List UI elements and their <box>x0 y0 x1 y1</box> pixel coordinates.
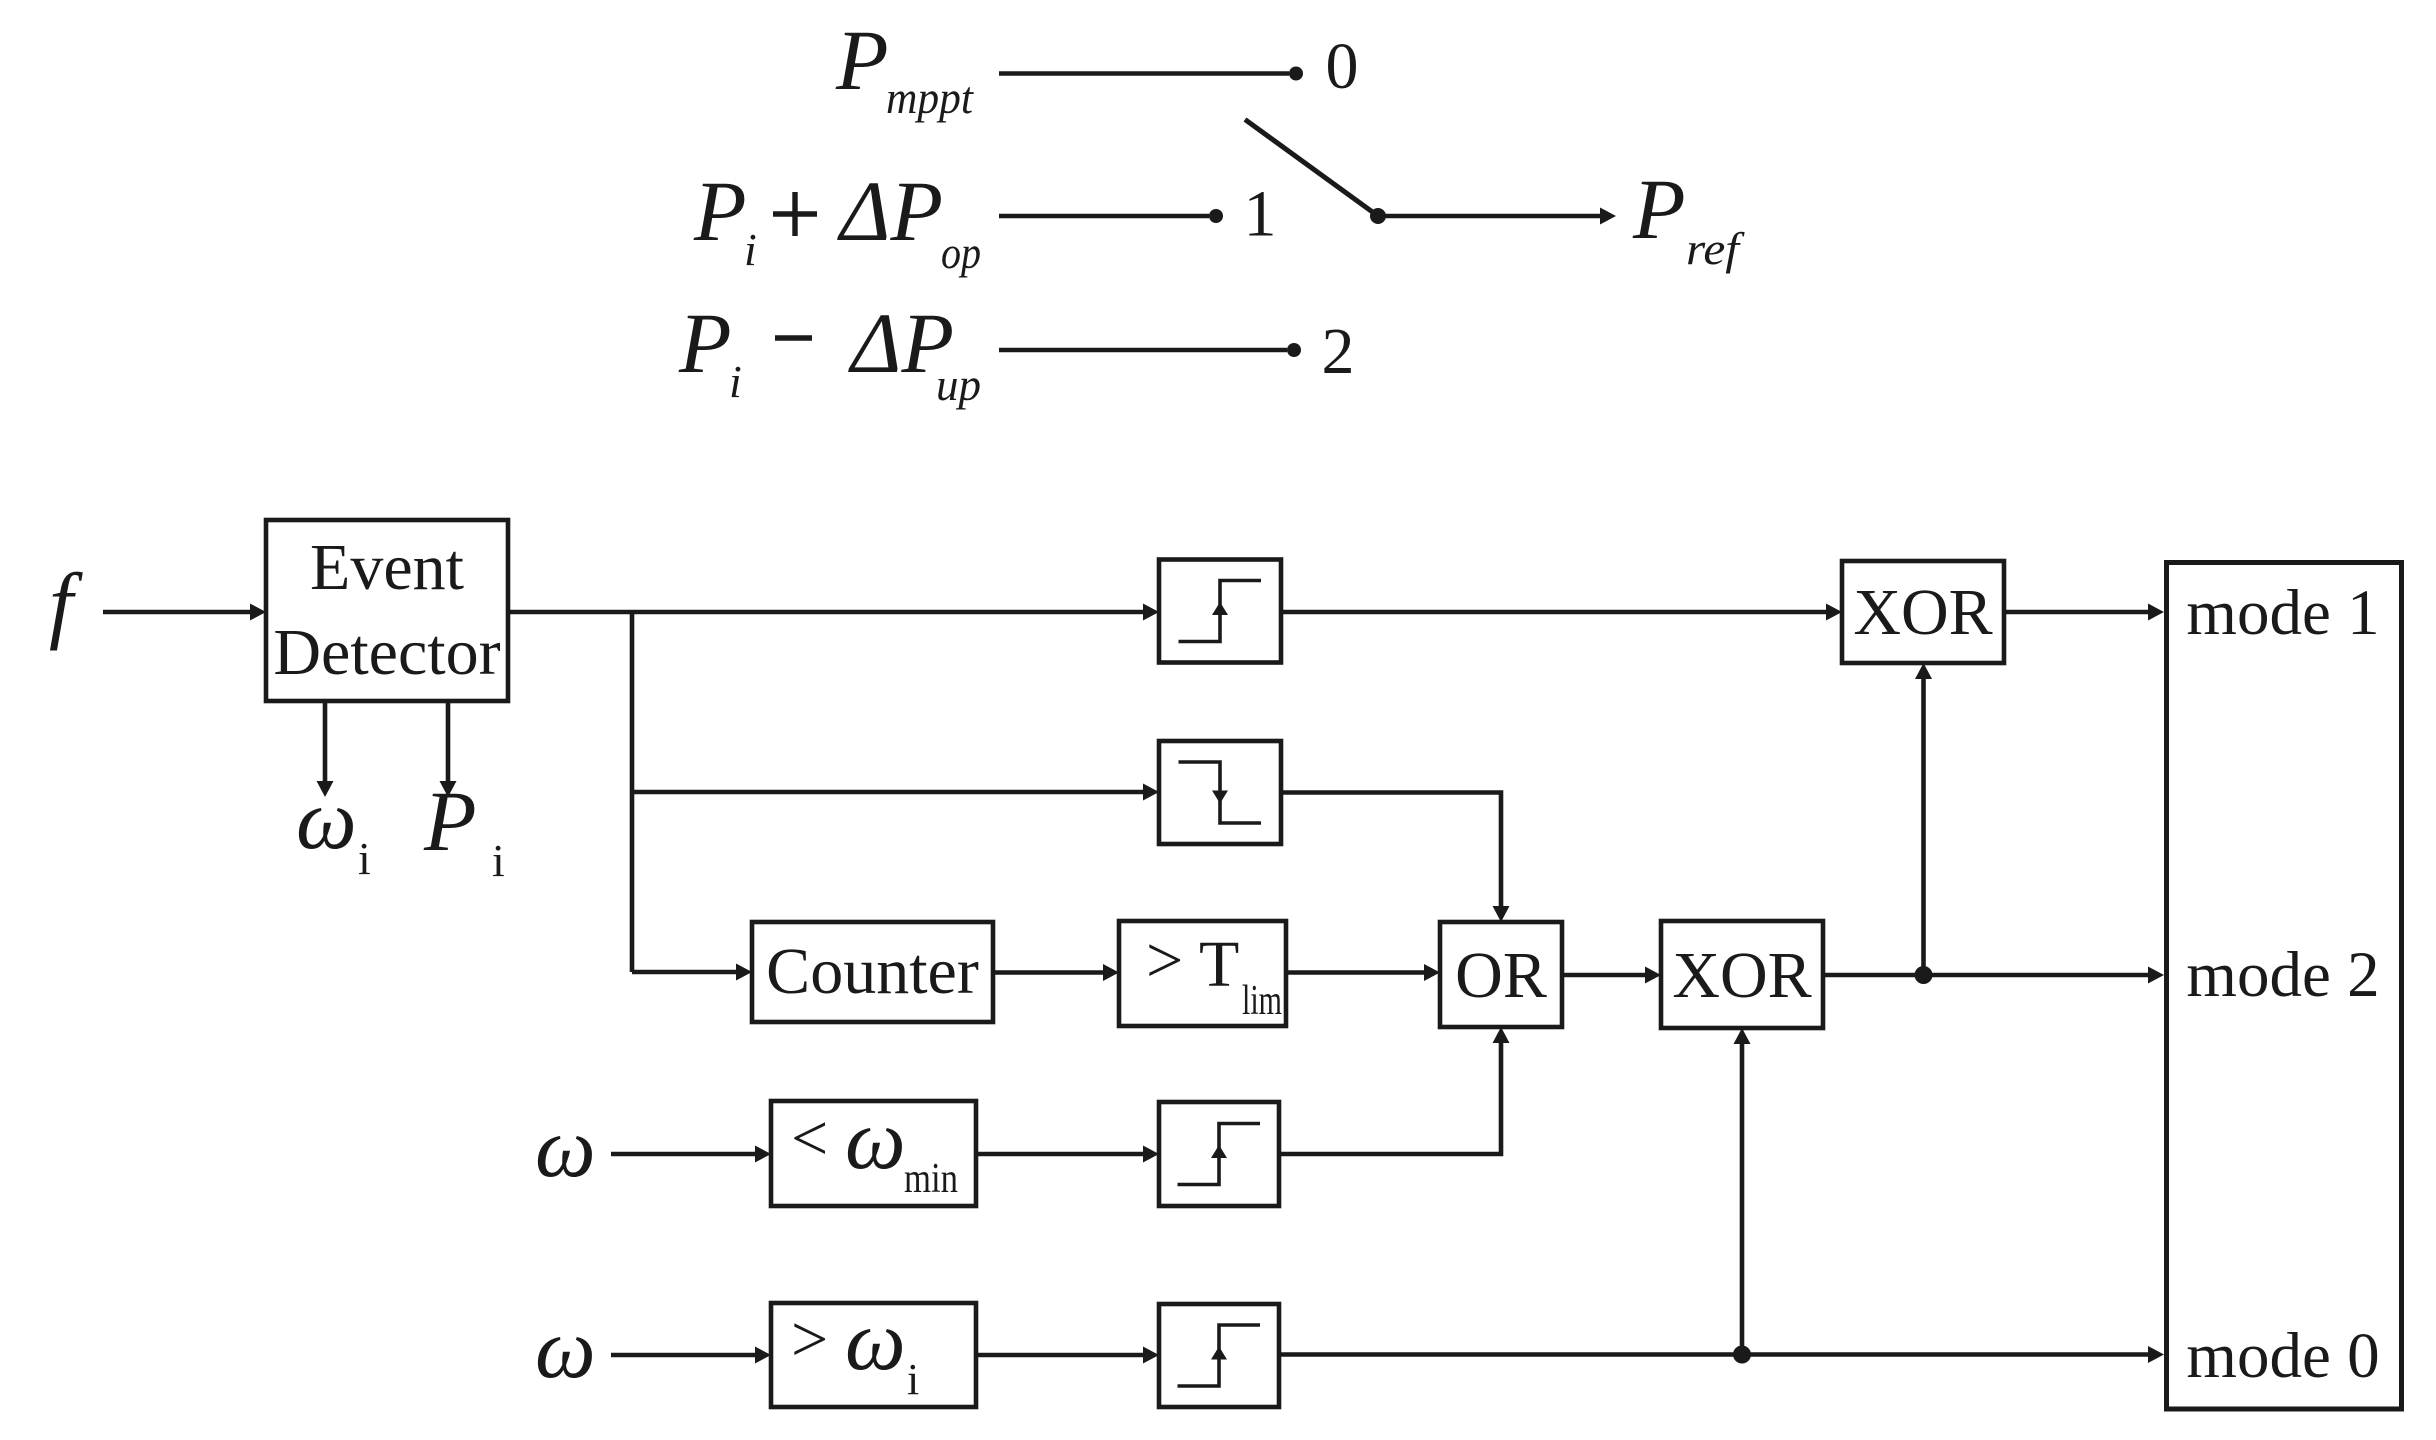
svg-text:>: > <box>1146 924 1183 997</box>
node P_i <box>423 773 505 886</box>
svg-text:i: i <box>744 224 757 275</box>
svg-text:P: P <box>1632 161 1686 257</box>
block falling-edge trigger <box>1159 741 1281 844</box>
wire rising edge 4 to mode 0 input <box>1279 1352 2150 1357</box>
svg-text:Event: Event <box>310 531 464 604</box>
svg-text:i: i <box>907 1355 919 1404</box>
switch pole dot <box>1370 208 1386 224</box>
wire Pi+dPop to contact 1 <box>999 214 1209 219</box>
wire P_i output (down) <box>446 701 451 783</box>
wire Counter to T_lim comparator <box>993 970 1105 975</box>
svg-text:ω: ω <box>535 1300 596 1396</box>
svg-text:OR: OR <box>1455 939 1547 1012</box>
contact 1 dot <box>1209 209 1223 223</box>
svg-text:2: 2 <box>1322 315 1355 388</box>
wire rising edge 1 to XOR1 <box>1281 610 1828 615</box>
label P_i + dP_op <box>693 163 981 278</box>
block XOR2 gate <box>1661 921 1823 1028</box>
svg-text:T: T <box>1199 928 1239 1001</box>
label P_ref <box>1632 161 1746 274</box>
block OR gate <box>1440 922 1562 1027</box>
label < omega_min <box>791 1091 958 1202</box>
svg-text:up: up <box>936 359 981 410</box>
wire omega_i output (down) <box>323 701 328 783</box>
block comparator > T_lim <box>1119 921 1286 1026</box>
svg-text:mode 2: mode 2 <box>2186 939 2379 1011</box>
wire junction up to XOR1 <box>1921 677 1926 975</box>
wire Pmppt to contact 0 <box>999 71 1289 76</box>
svg-text:Counter: Counter <box>766 935 979 1008</box>
svg-text:ω: ω <box>535 1099 596 1195</box>
block Event Detector <box>266 520 508 701</box>
svg-text:ref: ref <box>1686 223 1746 274</box>
contact 2 dot <box>1287 343 1301 357</box>
block Counter <box>752 922 993 1022</box>
svg-text:i: i <box>492 835 505 886</box>
wire branch vertical <box>630 612 635 972</box>
block rising-edge trigger 4 <box>1159 1304 1279 1407</box>
block mode selector output <box>2167 563 2402 1410</box>
svg-text:XOR: XOR <box>1672 939 1811 1012</box>
junction on mode-2 wire <box>1915 966 1933 984</box>
label > omega_i <box>791 1292 919 1404</box>
svg-text:ω: ω <box>845 1091 906 1187</box>
block comparator > omega_i <box>771 1303 976 1407</box>
wire Pi-dPup to contact 2 <box>999 348 1287 353</box>
svg-text:lim: lim <box>1242 978 1282 1024</box>
wire omega to > omega_i <box>611 1353 757 1358</box>
svg-text:ω: ω <box>845 1292 906 1388</box>
wire junction up to XOR2 <box>1740 1042 1745 1355</box>
contact 0 dot <box>1289 67 1303 81</box>
wire f to Event Detector <box>103 610 252 615</box>
svg-text:mode 1: mode 1 <box>2186 577 2379 649</box>
svg-text:op: op <box>941 227 981 278</box>
wire XOR2 to mode 2 input <box>1823 973 2150 978</box>
svg-text:i: i <box>358 833 371 884</box>
block XOR1 gate <box>1842 561 2004 663</box>
label > T_lim <box>1146 924 1282 1024</box>
wire branch to falling edge <box>632 790 1145 795</box>
wire OR to XOR2 <box>1562 973 1647 978</box>
switch arm (pole to contact 0 side) <box>1245 120 1378 217</box>
wire falling edge to OR (top) <box>1281 793 1501 909</box>
wire omega_i to rising edge 4 <box>976 1353 1145 1358</box>
svg-text:f: f <box>49 555 83 651</box>
svg-text:P: P <box>835 12 889 108</box>
wire T_lim to OR <box>1286 970 1426 975</box>
svg-text:1: 1 <box>1244 178 1277 251</box>
svg-text:<: < <box>791 1102 828 1175</box>
wire omega to < omega_min <box>611 1152 757 1157</box>
label P_mppt <box>835 12 974 123</box>
svg-text:i: i <box>729 356 742 407</box>
label Event Detector <box>273 531 500 689</box>
svg-text:>: > <box>791 1303 828 1376</box>
wire branch to Counter <box>632 970 738 975</box>
svg-text:P: P <box>693 163 747 259</box>
wire pole to P_ref <box>1378 214 1602 219</box>
node omega_i <box>296 771 371 884</box>
wire Event Detector to rising edge 1 <box>508 610 1145 615</box>
junction on mode-0 wire <box>1733 1346 1751 1364</box>
label P_i - dP_up <box>678 295 981 410</box>
wire rising edge 3 to OR (bottom) <box>1279 1041 1501 1154</box>
svg-text:P: P <box>423 773 477 869</box>
svg-text:0: 0 <box>1326 30 1359 103</box>
svg-text:Detector: Detector <box>273 616 500 689</box>
wire XOR1 to mode 1 input <box>2004 610 2150 615</box>
svg-text:ω: ω <box>296 771 357 867</box>
svg-text:min: min <box>904 1156 958 1202</box>
svg-text:mode 0: mode 0 <box>2186 1320 2379 1392</box>
svg-text:mppt: mppt <box>886 72 974 123</box>
block comparator < omega_min <box>771 1101 976 1206</box>
svg-text:XOR: XOR <box>1853 576 1992 649</box>
block rising-edge trigger 3 <box>1159 1102 1279 1206</box>
block rising-edge trigger 1 <box>1159 560 1281 663</box>
svg-text:P: P <box>678 295 732 391</box>
svg-text:ΔP: ΔP <box>837 163 943 259</box>
wire omega_min to rising edge 3 <box>976 1152 1145 1157</box>
